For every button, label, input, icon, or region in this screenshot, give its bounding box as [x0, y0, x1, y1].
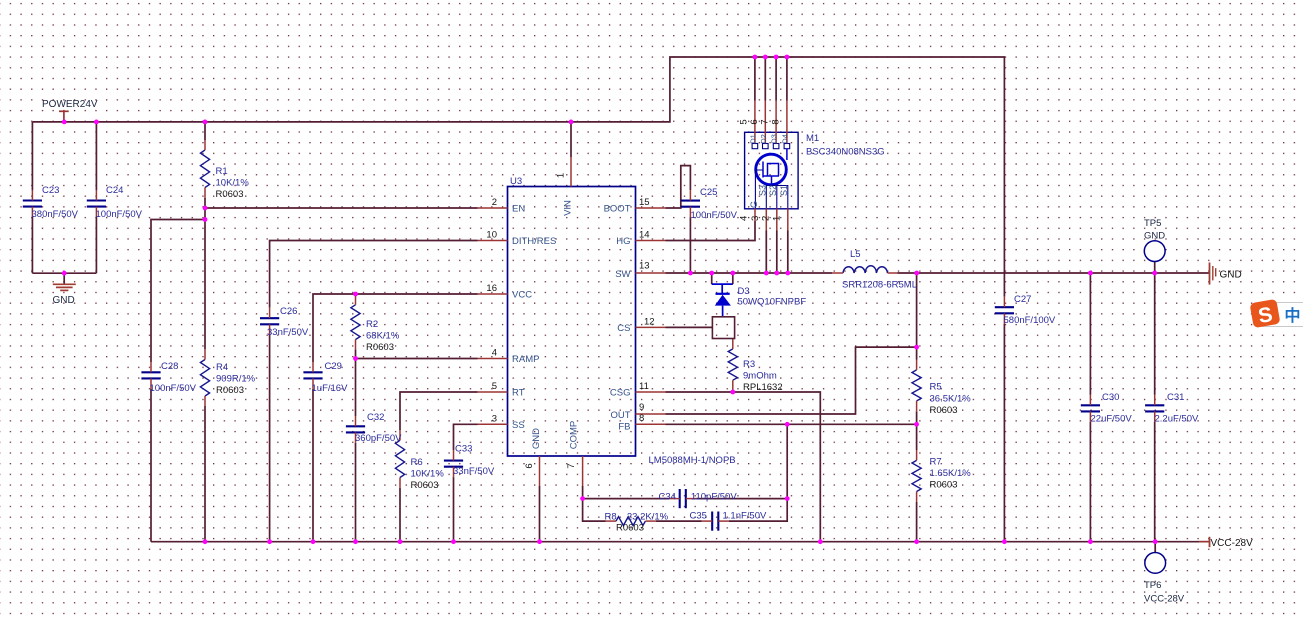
wire D3 right drop: [732, 273, 734, 284]
junction dots: [62, 120, 67, 125]
svg-text:C35: C35: [690, 511, 707, 522]
wire ground stem: [63, 273, 65, 284]
svg-text:C23: C23: [42, 185, 59, 196]
svg-text:10: 10: [486, 230, 497, 241]
U3 bottom pin 6 GND: [539, 456, 541, 486]
capacitor C33 leads: [453, 450, 455, 460]
wire D3 left drop: [711, 273, 713, 284]
sense resistor box RPL1632: [712, 317, 734, 339]
svg-text:C33: C33: [455, 444, 472, 455]
wire SW net: [666, 272, 833, 274]
svg-text:RAMP: RAMP: [512, 354, 539, 365]
wire C35 to FB riser: [729, 424, 788, 521]
svg-text:C29: C29: [325, 361, 342, 372]
svg-text:VCC: VCC: [512, 290, 532, 301]
svg-text:C32: C32: [367, 412, 384, 423]
svg-text:R5: R5: [930, 382, 942, 393]
svg-text:COMP: COMP: [569, 421, 580, 450]
wire EN junction to C28: [151, 220, 205, 363]
wire C27 bottom to bus: [1003, 324, 1005, 542]
capacitor C30: [1081, 404, 1100, 406]
wire VCC-28V port lead: [1199, 541, 1210, 543]
svg-text:10K/1%: 10K/1%: [216, 178, 250, 189]
capacitor C32 leads: [355, 416, 357, 426]
svg-text:VCC-28V: VCC-28V: [1144, 594, 1185, 605]
resistor R8: [616, 517, 645, 526]
M1 bottom pin 1: [787, 208, 789, 230]
net port VCC-28V right: [1209, 537, 1211, 547]
capacitor C31 leads: [1154, 395, 1156, 405]
capacitor C29 leads: [312, 362, 314, 372]
svg-text:S3: S3: [758, 185, 768, 196]
resistor R5: [912, 370, 921, 401]
resistor R6: [395, 440, 404, 477]
wire R1 to R4 through EN junctions: [204, 198, 206, 349]
svg-text:3: 3: [750, 216, 761, 221]
svg-text:R4: R4: [216, 362, 228, 373]
svg-text:R0603: R0603: [366, 342, 394, 353]
M1 top pin 5: [754, 101, 756, 144]
svg-text:23.2K/1%: 23.2K/1%: [627, 512, 669, 523]
wire C31 bottom to bus: [1154, 422, 1156, 542]
wire HG net: [666, 221, 756, 241]
svg-text:2.2uF/50V: 2.2uF/50V: [1155, 414, 1199, 425]
wire C23-C24 ground rail: [32, 272, 96, 274]
wire R7 bottom to bus: [916, 502, 918, 542]
svg-text:100nF/50V: 100nF/50V: [691, 210, 738, 221]
svg-text:11: 11: [639, 381, 649, 392]
svg-text:CS: CS: [617, 323, 630, 334]
wire DITH/RES net: [270, 241, 478, 308]
svg-text:D1: D1: [748, 134, 757, 144]
capacitor C28 leads: [150, 362, 152, 372]
svg-text:R1: R1: [216, 166, 228, 177]
wire RAMP net: [356, 358, 478, 360]
svg-text:1: 1: [556, 173, 567, 178]
svg-text:R0603: R0603: [411, 480, 439, 491]
capacitor C26: [260, 317, 279, 319]
svg-text:RT: RT: [512, 388, 525, 399]
svg-text:C24: C24: [106, 185, 123, 196]
wire CS net: [666, 326, 713, 328]
svg-text:GND: GND: [53, 295, 75, 306]
power symbol POWER24V: [59, 111, 69, 122]
svg-text:L5: L5: [850, 249, 861, 260]
svg-text:22uF/50V: 22uF/50V: [1091, 414, 1133, 425]
M1 bottom pin 4 G: [754, 208, 756, 221]
transistor M1 BSC340N08NS3G: [745, 132, 799, 209]
svg-text:VIN: VIN: [563, 200, 574, 216]
wire C32 bottom to bus: [355, 443, 357, 542]
svg-text:12: 12: [644, 317, 655, 328]
svg-text:R6: R6: [411, 457, 423, 468]
resistor R7 leads: [916, 450, 918, 460]
wire SS net: [454, 424, 478, 450]
svg-text:6: 6: [524, 463, 535, 468]
wire C34 net left: [583, 498, 670, 500]
capacitor C23: [23, 199, 42, 201]
ground symbol GND: [53, 284, 76, 290]
svg-text:S1: S1: [779, 185, 789, 196]
svg-text:C34: C34: [659, 492, 676, 503]
resistor R6 leads: [399, 430, 401, 440]
wire BOOT to C25 loop: [666, 166, 691, 208]
svg-text:R0603: R0603: [930, 405, 958, 416]
wire VCC net: [313, 294, 478, 362]
capacitor C25: [681, 200, 700, 202]
diode D3: [712, 284, 733, 317]
svg-text:SW: SW: [615, 269, 630, 280]
svg-text:VCC-28V: VCC-28V: [1211, 538, 1254, 549]
wire EN net: [205, 207, 478, 209]
inductor L5 leads: [832, 272, 843, 274]
wire C34 net right: [696, 498, 787, 500]
U3 right pin 11 CSG: [636, 391, 666, 393]
svg-text:R8: R8: [605, 512, 617, 523]
svg-text:9: 9: [639, 402, 644, 413]
svg-text:R0603: R0603: [216, 189, 244, 200]
U3 right pin 8 FB: [636, 423, 666, 425]
U3 top pin 1 VIN: [570, 157, 572, 187]
svg-text:HG: HG: [616, 236, 630, 247]
svg-text:2: 2: [492, 197, 497, 208]
wire M1 drain 5: [754, 57, 756, 101]
inductor L5: [843, 266, 888, 273]
svg-text:RPL1632: RPL1632: [743, 382, 783, 393]
wire M1 drain 6: [764, 57, 766, 101]
wire COMP down to R8: [583, 499, 606, 521]
svg-text:C25: C25: [700, 187, 717, 198]
wire C26 bottom to bus: [269, 335, 271, 542]
wire R6 bottom to bus: [399, 488, 401, 542]
capacitor C27 leads: [1003, 297, 1005, 307]
svg-text:33nF/50V: 33nF/50V: [267, 327, 309, 338]
wire SW to output rail: [898, 272, 1210, 274]
U3 right pin 12 CS: [636, 326, 666, 328]
resistor R8 leads: [606, 520, 617, 522]
capacitor C30 leads: [1089, 395, 1091, 405]
svg-text:M1: M1: [806, 133, 819, 144]
svg-text:36.5K/1%: 36.5K/1%: [930, 394, 972, 405]
wire TP5 stem: [1154, 262, 1156, 273]
svg-text:10K/1%: 10K/1%: [411, 469, 445, 480]
svg-text:EN: EN: [512, 204, 525, 215]
svg-text:BOOT: BOOT: [604, 204, 631, 215]
svg-text:SRR1208-6R5ML: SRR1208-6R5ML: [842, 280, 917, 291]
resistor R2 leads: [355, 294, 357, 305]
wire C33 bottom to bus: [453, 477, 455, 542]
svg-text:FB: FB: [618, 422, 630, 433]
capacitor C28: [141, 371, 160, 373]
svg-text:U3: U3: [510, 176, 522, 187]
wire R7 top: [916, 424, 918, 450]
svg-text:360pF/50V: 360pF/50V: [355, 433, 402, 444]
svg-text:R3: R3: [743, 359, 755, 370]
capacitor C35 leads: [702, 520, 712, 522]
wire M1 source S3: [765, 231, 767, 274]
wire C24 branch: [95, 122, 97, 190]
svg-text:D2: D2: [759, 134, 768, 144]
net port GND right: [1210, 263, 1216, 285]
svg-text:GND: GND: [1220, 270, 1242, 281]
svg-text:50WQ10FNPBF: 50WQ10FNPBF: [738, 297, 807, 308]
wire VCC-28V bottom bus: [151, 541, 1210, 543]
resistor R1 leads: [204, 140, 206, 150]
capacitor C34 leads: [669, 498, 679, 500]
resistor R5 leads: [916, 360, 918, 370]
U3 left pin 4 RAMP: [478, 358, 508, 360]
U3 left pin 10 DITH/RES: [478, 240, 508, 242]
svg-text:2: 2: [761, 216, 772, 221]
svg-text:110pF/50V: 110pF/50V: [691, 492, 737, 503]
svg-text:14: 14: [639, 230, 650, 241]
resistor R2: [351, 305, 360, 340]
svg-text:68K/1%: 68K/1%: [366, 331, 400, 342]
svg-text:1.65K/1%: 1.65K/1%: [930, 468, 972, 479]
wire GND pin to bus: [539, 486, 541, 542]
op-amp U3 body LM5088: [508, 187, 636, 457]
svg-text:100nF/50V: 100nF/50V: [150, 383, 197, 394]
svg-text:1.1nF/50V: 1.1nF/50V: [723, 511, 767, 522]
capacitor C26 leads: [269, 308, 271, 318]
svg-text:SS: SS: [512, 420, 525, 431]
M1 top pin 8: [786, 101, 788, 144]
U3 right pin 9 OUT: [636, 413, 666, 415]
wire R4 bottom to VCC-28V bus: [204, 406, 206, 542]
svg-text:1: 1: [772, 216, 783, 221]
resistor R4 leads: [204, 349, 206, 360]
svg-text:9mOhm: 9mOhm: [743, 371, 777, 382]
wire C29 bottom to bus: [312, 389, 314, 542]
svg-text:580nF/100V: 580nF/100V: [1004, 315, 1056, 326]
svg-text:BSC340N08NS3G: BSC340N08NS3G: [806, 147, 885, 158]
svg-text:R0603: R0603: [616, 523, 644, 534]
wire C30 branch: [1089, 273, 1091, 395]
svg-text:D3: D3: [770, 134, 779, 144]
capacitor C31: [1145, 404, 1164, 406]
svg-text:16: 16: [486, 283, 497, 294]
svg-text:C27: C27: [1014, 294, 1031, 305]
svg-text:5: 5: [492, 381, 497, 392]
svg-text:D3: D3: [738, 286, 750, 297]
svg-text:7: 7: [566, 463, 577, 468]
wire POWER24V bus to M1 drains and down to C27: [32, 57, 1004, 297]
wire CSG net: [666, 392, 821, 542]
wire M1 source S2: [776, 231, 778, 274]
wire RT net: [400, 392, 478, 430]
svg-text:DITH/RES: DITH/RES: [512, 236, 556, 247]
capacitor C33: [444, 460, 463, 462]
svg-text:TP5: TP5: [1144, 218, 1161, 229]
wire FB net: [666, 423, 917, 425]
svg-text:5: 5: [738, 119, 749, 124]
svg-text:380nF/50V: 380nF/50V: [32, 209, 79, 220]
svg-text:3: 3: [492, 414, 497, 425]
svg-text:G: G: [749, 201, 759, 208]
svg-text:R2: R2: [366, 319, 378, 330]
resistor R3: [728, 349, 737, 380]
capacitor C27: [995, 306, 1014, 308]
wire M1 source S1: [787, 231, 789, 274]
wire COMP pin to C34 junction: [582, 486, 584, 499]
M1 top pin 7: [775, 101, 777, 144]
wire VIN pin to POWER24V bus: [570, 122, 572, 157]
wire C25 bottom to SW: [689, 217, 691, 273]
M1 bottom pin 2: [776, 208, 778, 230]
U3 left pin 3 SS: [478, 423, 508, 425]
svg-text:OUT: OUT: [610, 410, 630, 421]
svg-text:R0603: R0603: [216, 385, 244, 396]
svg-text:GND: GND: [531, 428, 542, 449]
svg-text:R7: R7: [930, 457, 942, 468]
svg-text:C30: C30: [1102, 392, 1119, 403]
watermark orange S logo: [1250, 299, 1281, 329]
svg-text:C31: C31: [1167, 392, 1184, 403]
capacitor C29: [303, 371, 322, 373]
U3 right pin 15 BOOT: [636, 207, 666, 209]
wire C28 bottom to bus: [150, 389, 152, 542]
svg-text:100nF/50V: 100nF/50V: [96, 209, 143, 220]
test point TP5: [1144, 241, 1165, 262]
wire R1 top: [204, 122, 206, 140]
svg-text:6: 6: [749, 119, 760, 124]
svg-text:C26: C26: [280, 306, 297, 317]
svg-text:R0603: R0603: [930, 480, 958, 491]
capacitor C35: [711, 512, 713, 531]
svg-text:909R/1%: 909R/1%: [216, 374, 256, 385]
capacitor C24: [87, 199, 106, 201]
svg-text:13: 13: [639, 261, 650, 272]
wire M1 drain 7: [775, 57, 777, 101]
U3 right pin 14 HG: [636, 240, 666, 242]
svg-text:33nF/50V: 33nF/50V: [453, 466, 495, 477]
wire C23 branch: [31, 122, 33, 190]
svg-text:LM5088MH-1/NOPB: LM5088MH-1/NOPB: [649, 455, 736, 466]
wire C30 bottom to bus: [1089, 422, 1091, 542]
capacitor C25 leads: [689, 190, 691, 200]
svg-text:POWER24V: POWER24V: [42, 99, 98, 110]
wire R5 bottom to FB: [916, 411, 918, 424]
U3 bottom pin 7 COMP: [582, 456, 584, 486]
U3 right pin 13 SW: [636, 272, 666, 274]
test point TP6: [1145, 553, 1166, 574]
svg-text:15: 15: [639, 197, 650, 208]
wire OUT net: [666, 347, 917, 414]
wire R2 bottom junction to C32: [355, 349, 357, 416]
capacitor C24 leads: [95, 190, 97, 200]
wire C23 lower: [31, 217, 33, 273]
svg-text:4: 4: [739, 216, 750, 221]
svg-text:1uF/16V: 1uF/16V: [312, 383, 349, 394]
svg-text:4: 4: [492, 348, 497, 359]
svg-text:S2: S2: [768, 185, 778, 196]
U3 left pin 5 RT: [478, 391, 508, 393]
svg-text:TP6: TP6: [1144, 580, 1161, 591]
resistor R1: [200, 150, 209, 188]
resistor R7: [912, 460, 921, 491]
capacitor C34: [679, 489, 681, 508]
svg-text:中: 中: [1285, 306, 1301, 325]
svg-text:8: 8: [639, 413, 644, 424]
capacitor C23 leads: [31, 190, 33, 200]
svg-text:8: 8: [770, 119, 781, 124]
capacitor C32: [346, 425, 365, 427]
U3 left pin 16 VCC: [478, 293, 508, 295]
M1 bottom pin 3: [765, 208, 767, 230]
svg-text:D4: D4: [780, 134, 789, 144]
svg-text:7: 7: [760, 119, 771, 124]
wire C24 lower: [95, 217, 97, 273]
resistor R4: [200, 360, 209, 397]
M1 top pin 6: [764, 101, 766, 144]
resistor R3 leads: [732, 339, 734, 349]
U3 left pin 2 EN: [478, 207, 508, 209]
wire M1 drain 8: [786, 57, 788, 101]
svg-text:CSG: CSG: [610, 388, 631, 399]
watermark white strip: [1262, 303, 1303, 327]
wire TP6 stem: [1154, 542, 1156, 553]
wire R5 top to output rail: [916, 273, 918, 360]
wire R8 to C35: [656, 520, 702, 522]
wire C31 branch: [1154, 273, 1156, 395]
svg-text:C28: C28: [161, 361, 178, 372]
svg-text:GND: GND: [1144, 231, 1165, 242]
